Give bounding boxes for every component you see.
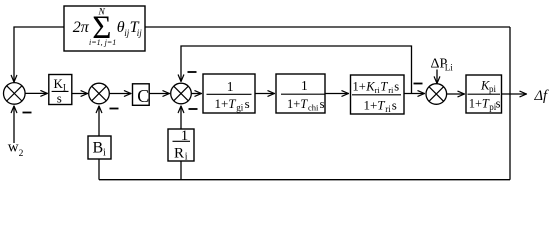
svg-text:s: s: [496, 97, 501, 111]
wire junction1 to KI/s block: [25, 92, 47, 94]
block 1/Ri droop: [168, 128, 194, 163]
wire C to summing junction 3: [149, 93, 169, 95]
svg-text:T: T: [380, 80, 388, 94]
svg-text:1+: 1+: [353, 80, 366, 94]
block KI/s integrator: [49, 75, 72, 106]
input wire delta P_Li into junction 4: [436, 70, 438, 84]
svg-text:i=1, j=1: i=1, j=1: [89, 38, 116, 47]
wire turbine to reheat block: [325, 93, 349, 95]
wire from tie-line block right to far-right feedback vertical: [145, 26, 510, 28]
wire junction2 to C block: [109, 93, 131, 95]
svg-text:1+: 1+: [364, 98, 378, 113]
svg-text:s: s: [320, 97, 325, 111]
svg-text:ri: ri: [388, 85, 394, 95]
svg-text:1+: 1+: [287, 97, 300, 111]
svg-text:B: B: [93, 140, 104, 157]
svg-text:w: w: [8, 140, 19, 156]
svg-text:s: s: [57, 91, 62, 106]
svg-text:ij: ij: [137, 28, 143, 38]
svg-text:s: s: [245, 96, 250, 111]
svg-text:I: I: [63, 82, 66, 92]
block reheat (1+Kri Tri s)/(1+Tri s): [351, 75, 405, 114]
output wire delta f: [502, 93, 527, 95]
wire from bottom feedback line up into Bi: [98, 159, 100, 180]
svg-text:T: T: [377, 98, 385, 113]
svg-text:chi: chi: [308, 103, 319, 113]
wire 1/Ri up into summing junction 3: [180, 106, 182, 129]
block turbine 1/(1+Tchi s): [276, 74, 325, 113]
bottom feedback wire: [99, 179, 510, 181]
block power system Kpi/(1+Tpi s): [466, 75, 502, 113]
summing junction 3: [171, 83, 192, 104]
minus sign at summing junction 1 (w2 input): [23, 112, 32, 114]
svg-text:s: s: [394, 80, 399, 94]
wire junction4 to power system block: [447, 93, 465, 95]
summing junction 2: [89, 83, 110, 104]
svg-text:gi: gi: [236, 103, 244, 113]
svg-text:pi: pi: [489, 84, 497, 94]
label delta f: [534, 88, 550, 104]
svg-text:R: R: [174, 146, 184, 162]
svg-text:i: i: [103, 148, 106, 159]
wire Bi up into summing junction 2: [98, 106, 100, 136]
block tie-line gain 2pi*sum(theta_ij T_ij): [64, 6, 145, 51]
svg-text:ri: ri: [385, 104, 391, 114]
minus sign at summing junction 4 (load disturbance input): [414, 83, 423, 85]
wire from bottom feedback line up into 1/Ri: [180, 161, 182, 180]
svg-text:i: i: [185, 152, 188, 163]
label delta P_Li: [431, 57, 454, 73]
block governor 1/(1+Tgi s): [203, 74, 255, 113]
wire governor to turbine block: [255, 93, 275, 95]
minus sign at summing junction 3 bottom (1/Ri input): [189, 108, 198, 110]
wire KI/s to summing junction 2: [72, 93, 88, 95]
minus sign at summing junction 2 (Bi input): [110, 108, 119, 110]
svg-text:s: s: [392, 98, 397, 113]
svg-text:N: N: [98, 8, 106, 18]
svg-text:Li: Li: [445, 63, 453, 73]
inner rate-feedback loop wire (pickoff after reheat block, up over, down into junction 3): [181, 46, 412, 94]
wire junction3 to governor block: [191, 93, 201, 95]
wire from tie-line block left to corner and down into summing junction 1: [14, 27, 64, 82]
svg-text:1+: 1+: [469, 97, 482, 111]
svg-text:1: 1: [227, 79, 234, 94]
svg-text:C: C: [137, 86, 149, 106]
wire reheat to summing junction 4 (with pickoff at x=411.5): [404, 93, 425, 95]
svg-text:2: 2: [19, 149, 24, 159]
input w2 wire: [13, 106, 15, 143]
feedback vertical wire at right (x=510) from tie-line down to bottom line: [509, 27, 511, 180]
block Bi frequency bias: [88, 136, 111, 159]
svg-text:T: T: [228, 96, 236, 111]
summing junction 1: [4, 83, 26, 105]
block C: [133, 84, 150, 106]
svg-text:2π: 2π: [73, 19, 90, 36]
svg-text:1: 1: [301, 78, 308, 93]
summing junction 4: [426, 84, 447, 105]
svg-text:Δf: Δf: [534, 88, 550, 104]
minus sign at summing junction 3 top (rate feedback input): [188, 71, 197, 73]
label w2: [8, 140, 24, 160]
svg-text:1+: 1+: [215, 96, 229, 111]
svg-text:T: T: [300, 97, 308, 111]
